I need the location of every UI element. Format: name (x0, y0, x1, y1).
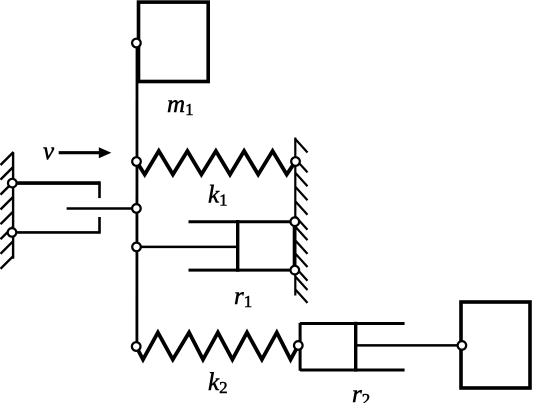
mass m2 (461, 302, 530, 388)
node damper r2 rod right (458, 341, 467, 350)
damper r1 rod (137, 246, 238, 249)
damper r2 cylinder top plate (300, 322, 405, 325)
velocity source fork top arm (12, 181, 99, 185)
node damper r1 top (291, 217, 300, 226)
spring k1 (137, 151, 296, 175)
damper r1 piston (236, 220, 239, 272)
right wall (295, 138, 307, 303)
node spring k2 right (294, 341, 303, 350)
damper r2 closed end (299, 323, 302, 371)
velocity source fork bottom arm (12, 231, 100, 234)
damper r1 cylinder top plate (189, 220, 295, 223)
node spring k1 right (291, 157, 300, 166)
damper r2 piston (354, 322, 357, 372)
svg-text:v: v (43, 138, 55, 165)
mass m1 (139, 2, 209, 81)
velocity source rod (67, 207, 137, 209)
node left wall bottom (8, 228, 17, 237)
damper r2 rod (356, 344, 462, 347)
node damper r1 bottom (291, 266, 300, 275)
node left wall top (8, 179, 17, 188)
node spring k2 left (132, 342, 141, 351)
damper r2 cylinder bottom plate (300, 369, 405, 372)
arrow v (59, 151, 101, 154)
node spring k1 left (132, 157, 141, 166)
spring k2 (136, 333, 298, 360)
node source rod (132, 204, 141, 213)
damper r1 cylinder bottom plate (189, 269, 295, 272)
wire main vertical (135, 43, 138, 347)
node damper r1 rod (132, 243, 141, 252)
damper r1 closed end on wall (293, 222, 297, 270)
left wall (1, 152, 14, 269)
node on m1 (132, 39, 141, 48)
